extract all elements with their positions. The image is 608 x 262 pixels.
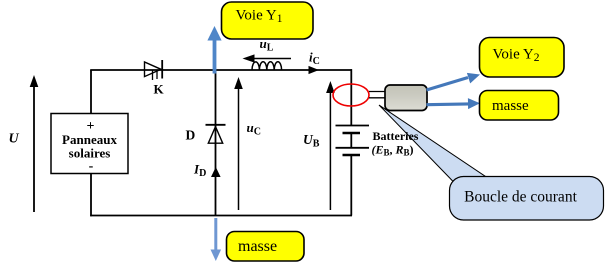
annotation arrow u_C	[234, 77, 243, 210]
battery B plates	[336, 126, 370, 156]
svg-text:U: U	[9, 132, 20, 147]
svg-text:iC: iC	[309, 50, 320, 68]
svg-text:Boucle de courant: Boucle de courant	[464, 189, 577, 206]
label Voie Y1 (yellow)	[222, 2, 314, 39]
probe connector lines	[369, 92, 386, 98]
blue arrow Voie Y1 (up from top rail)	[207, 26, 221, 74]
blue arrow to Voie Y2	[427, 73, 481, 90]
svg-text:Voie Y2: Voie Y2	[493, 47, 540, 65]
callout Boucle de courant	[450, 177, 604, 221]
svg-text:K: K	[154, 82, 165, 97]
svg-text:Voie Y1: Voie Y1	[236, 8, 283, 26]
svg-text:uC: uC	[247, 120, 261, 138]
annotation arrow u_L	[243, 54, 292, 62]
wire: diode D branch vertical	[215, 70, 217, 216]
wire: right vertical, top rail to battery	[350, 69, 352, 125]
annotation arrow U_B	[326, 81, 335, 210]
label masse bottom (yellow)	[227, 232, 305, 262]
solar panel box (Panneaux solaires)	[51, 114, 128, 175]
svg-text:ID: ID	[193, 162, 206, 180]
label masse right (yellow)	[480, 91, 559, 121]
svg-text:D: D	[186, 128, 196, 143]
current loop probe: red ellipse	[333, 84, 369, 106]
probe body (gray box)	[385, 85, 427, 111]
diode D	[206, 125, 226, 143]
wire: left vertical, solar box top to top rail	[90, 70, 92, 114]
blue arrow to masse (right)	[427, 98, 481, 109]
label Voie Y2 (yellow)	[480, 38, 565, 78]
svg-text:Batteries: Batteries	[373, 129, 419, 143]
wire: battery bottom to bottom rail	[350, 155, 352, 216]
blue arrow masse (down from bottom rail)	[211, 218, 222, 261]
svg-text:-: -	[89, 159, 94, 174]
inductor L (coil)	[252, 62, 282, 70]
svg-text:(EB, RB): (EB, RB)	[372, 143, 414, 158]
current arrow I_D (on diode branch)	[211, 167, 221, 177]
svg-text:masse: masse	[238, 238, 277, 255]
svg-text:masse: masse	[492, 98, 529, 114]
svg-text:UB: UB	[303, 132, 320, 150]
callout tail (Boucle de courant pointer)	[379, 105, 487, 187]
annotation arrow U (left)	[30, 75, 39, 212]
wire: top rail	[90, 69, 352, 71]
current arrow i_C (on top rail)	[309, 66, 320, 74]
wire: bottom rail	[90, 215, 352, 217]
thyristor K	[145, 60, 163, 80]
wire: solar box bottom to bottom rail	[90, 174, 92, 217]
wire: battery internal segment	[350, 133, 352, 148]
